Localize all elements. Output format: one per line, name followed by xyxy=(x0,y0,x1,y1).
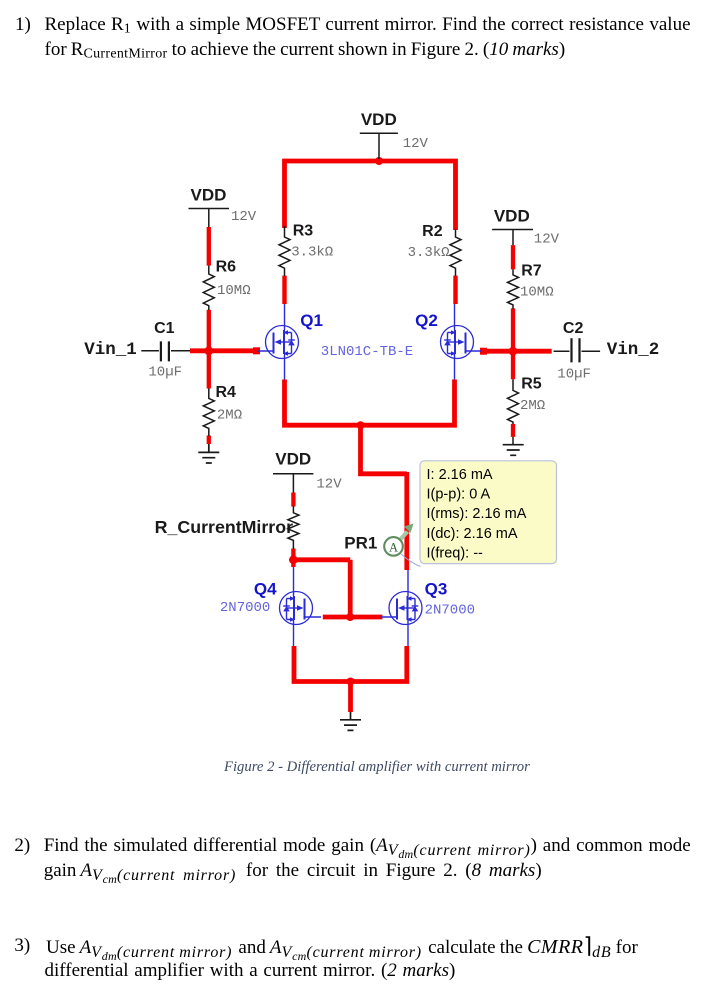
svg-text:10µF: 10µF xyxy=(557,366,591,382)
svg-text:12V: 12V xyxy=(316,476,342,492)
svg-text:R5: R5 xyxy=(521,376,542,393)
svg-text:C1: C1 xyxy=(154,320,175,337)
svg-text:R_CurrentMirror: R_CurrentMirror xyxy=(155,517,293,537)
svg-text:R2: R2 xyxy=(422,223,443,240)
svg-text:I(p-p): 0 A: I(p-p): 0 A xyxy=(427,487,491,503)
svg-text:3.3kΩ: 3.3kΩ xyxy=(408,245,450,261)
svg-text:12V: 12V xyxy=(534,232,560,248)
svg-text:Q3: Q3 xyxy=(425,580,448,599)
svg-text:R6: R6 xyxy=(216,258,237,275)
svg-text:I(dc): 2.16 mA: I(dc): 2.16 mA xyxy=(427,526,518,542)
svg-text:3LN01C-TB-E: 3LN01C-TB-E xyxy=(321,344,413,360)
svg-text:Q1: Q1 xyxy=(300,311,323,330)
svg-text:A: A xyxy=(389,540,398,554)
svg-text:R3: R3 xyxy=(293,223,314,240)
svg-text:10µF: 10µF xyxy=(148,365,182,381)
svg-text:R4: R4 xyxy=(216,384,237,401)
svg-text:10MΩ: 10MΩ xyxy=(217,283,251,299)
svg-text:2N7000: 2N7000 xyxy=(220,600,270,616)
svg-text:Q2: Q2 xyxy=(415,311,438,330)
svg-text:C2: C2 xyxy=(563,320,584,337)
svg-text:VDD: VDD xyxy=(275,450,311,469)
svg-text:Vin_2: Vin_2 xyxy=(607,340,660,360)
svg-text:VDD: VDD xyxy=(361,110,397,129)
svg-text:R7: R7 xyxy=(521,262,542,279)
svg-text:3.3kΩ: 3.3kΩ xyxy=(291,245,333,261)
svg-text:2MΩ: 2MΩ xyxy=(520,398,545,414)
svg-text:10MΩ: 10MΩ xyxy=(520,284,554,300)
svg-text:I(rms): 2.16 mA: I(rms): 2.16 mA xyxy=(427,506,527,522)
svg-text:VDD: VDD xyxy=(191,185,227,204)
svg-text:2MΩ: 2MΩ xyxy=(217,407,242,423)
svg-text:12V: 12V xyxy=(403,136,429,152)
svg-text:12V: 12V xyxy=(231,209,257,225)
svg-text:Vin_1: Vin_1 xyxy=(84,340,137,360)
svg-text:2N7000: 2N7000 xyxy=(425,603,475,619)
svg-text:PR1: PR1 xyxy=(344,534,377,553)
svg-text:Q4: Q4 xyxy=(254,580,277,599)
svg-text:VDD: VDD xyxy=(494,207,530,226)
svg-text:I: 2.16 mA: I: 2.16 mA xyxy=(427,467,493,483)
svg-text:I(freq): --: I(freq): -- xyxy=(427,545,484,561)
